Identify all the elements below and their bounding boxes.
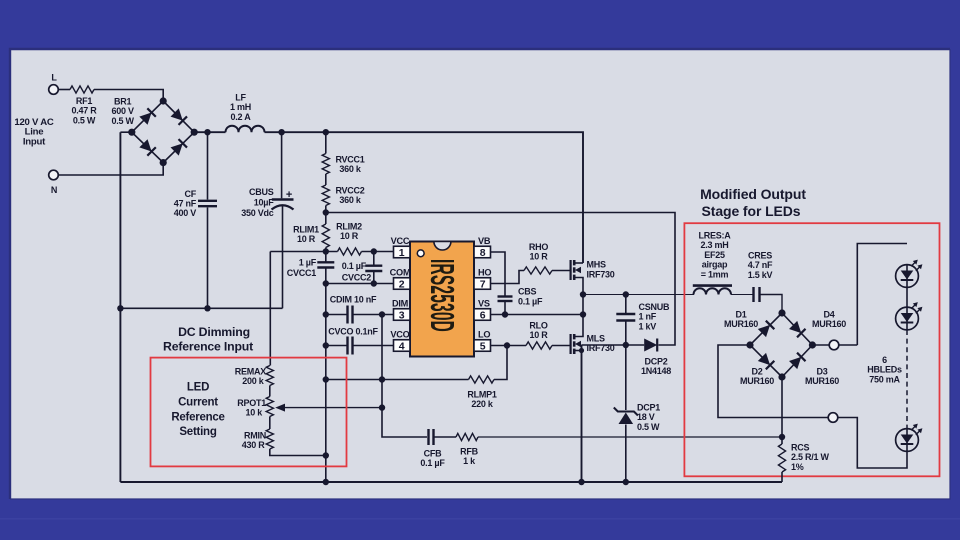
svg-text:10 R: 10 R [297,234,316,244]
svg-text:Modified Output: Modified Output [700,186,806,202]
red box modified output stage [684,223,939,476]
svg-text:47 nF: 47 nF [174,199,197,209]
wire VS line [491,314,584,316]
wire LED1-LED2 [906,287,908,307]
node ground rail x325 [323,479,329,485]
resistor RLO [526,321,552,350]
node CSNUB bottom [623,342,629,348]
svg-text:D1: D1 [735,310,746,320]
bridge BR1 frame [111,97,194,163]
wire VCC to REMAX [269,252,271,366]
diode BR1 upper-left [139,108,156,125]
node VS-CBS [502,311,508,317]
node CBUS top [278,129,284,135]
pin 7 HO [474,267,491,290]
svg-text:400 V: 400 V [174,208,197,218]
wire mid-left horizontal [120,307,282,309]
wire RLMP1 to LO line [494,346,507,380]
diode BR1 lower-left [139,139,156,156]
svg-text:Setting: Setting [179,426,216,438]
node CSNUB top [623,291,629,297]
node D bridge right [809,341,816,348]
resistor RFB [456,433,479,466]
svg-text:Current: Current [178,396,218,408]
wire RHO to MHS gate [552,270,570,272]
svg-text:CFB: CFB [424,449,442,459]
capacitor CBUS [241,187,293,218]
svg-text:Stage for LEDs: Stage for LEDs [702,203,801,219]
wire DCP1 top [625,345,627,410]
svg-text:DCP2: DCP2 [644,357,667,367]
LED 2 [896,302,923,330]
wire dashed LED string [906,330,908,429]
node ground MLS [578,479,584,485]
svg-text:RMIN: RMIN [244,430,266,440]
zener DCP1 [614,403,660,432]
diode DCP2 [641,339,671,377]
wire CF top [207,132,209,199]
capacitor CBS [498,287,543,307]
wire RLO to MLS gate [552,345,570,347]
wire RLIM1 to VCC node [325,248,327,252]
svg-text:0.2 A: 0.2 A [231,112,252,122]
wire DIM vertical [382,315,427,438]
wire CBUS bottom [282,206,284,308]
wire top rail right of LF [265,132,584,263]
pin 5 LO [474,329,491,352]
wire terminal2 to LED string [838,418,907,469]
wire LO to RLO [491,345,527,347]
svg-text:airgap: airgap [702,260,728,270]
wire VCC-rail down1 [325,284,327,315]
svg-text:MUR160: MUR160 [812,319,846,329]
terminal LED+ [829,340,839,350]
svg-text:EF25: EF25 [704,250,725,260]
label 6 HBLEDs 750 mA [867,355,902,384]
svg-text:0.1 µF: 0.1 µF [420,458,445,468]
node RLMP-DIM cross [379,376,385,382]
wire CFB to RFB [435,436,457,438]
svg-text:RVCC2: RVCC2 [335,186,364,196]
svg-text:RCS: RCS [791,443,809,453]
svg-text:4: 4 [399,340,405,352]
svg-text:L: L [51,73,57,83]
label Modified Output Stage for LEDs [700,186,806,219]
node top rail RVCC [323,129,329,135]
wire VCC node left branch [270,251,337,253]
wire left ground rail [119,132,121,482]
wire bridge left to ground rail [120,131,131,133]
svg-text:CRES: CRES [748,251,772,261]
svg-text:750 mA: 750 mA [869,374,900,384]
wire DCP1 bottom [625,425,627,483]
svg-text:2.3 mH: 2.3 mH [700,240,728,250]
wire RVCC1-RVCC2 [325,174,327,185]
node bridge bottom [160,159,167,166]
wire VB to CBS [491,252,506,296]
node wiper-DIM [379,404,385,410]
bridge D1-D4 frame [750,313,812,377]
pin 8 VB [474,236,491,259]
svg-text:N: N [51,185,57,195]
svg-text:MHS: MHS [587,260,606,270]
node D bridge bottom [778,373,785,380]
svg-text:D3: D3 [816,367,827,377]
svg-text:RF1: RF1 [76,96,92,106]
svg-text:VB: VB [478,236,491,246]
svg-text:10 k: 10 k [245,408,263,418]
svg-text:6: 6 [480,309,486,321]
capacitor CVCO [326,327,394,355]
wire CBUS top [281,132,283,198]
terminal L [49,73,59,95]
diode D4 [789,310,846,338]
svg-text:HBLEDs: HBLEDs [867,365,902,375]
resistor RLIM2 [336,222,362,256]
svg-text:CF: CF [185,189,197,199]
node ground DCP1 [623,479,629,485]
svg-text:10 R: 10 R [529,330,548,340]
capacitor CF [174,189,217,218]
wire VCC-rail down4 [325,380,327,483]
node COM left [323,280,329,286]
svg-text:IRF730: IRF730 [587,270,615,280]
label 120V AC Line Input [14,117,54,147]
svg-text:10 R: 10 R [340,231,359,241]
wire CBS to VS [504,302,506,315]
wire REMAX-RPOT1 [269,386,271,397]
node RLMP line left [323,376,329,382]
svg-text:HO: HO [478,267,491,277]
svg-text:8: 8 [480,247,486,259]
svg-text:RVCC1: RVCC1 [335,155,364,165]
svg-text:6: 6 [882,355,887,365]
node divider bottom [323,452,329,458]
resistor REMAX [235,366,274,387]
wire COM line [326,283,394,285]
svg-text:LF: LF [235,93,246,103]
pin 3 DIM [392,298,410,321]
svg-text:RLIM2: RLIM2 [336,222,362,232]
svg-text:= 1mm: = 1mm [701,269,729,279]
svg-text:1 kV: 1 kV [639,321,657,331]
svg-text:RLIM1: RLIM1 [293,225,319,235]
wire L to RF1 [58,89,70,91]
transistor Q1 MHS [571,260,615,295]
svg-text:Reference Input: Reference Input [163,340,253,354]
svg-text:1 k: 1 k [463,456,476,466]
node VCC [323,248,329,254]
wire VCC-rail down3 [325,346,327,380]
svg-text:18 V: 18 V [637,412,655,422]
node VCC charge line [323,209,329,215]
capacitor CVCC2 [342,252,383,284]
wire CRES to D bridge [760,295,782,314]
resistor RCS [778,443,829,473]
wire charge-pump line to DCP2 [326,213,675,346]
svg-text:1 nF: 1 nF [639,312,657,322]
wire D bridge right to terminal [812,344,829,346]
capacitor CSNUB [616,295,670,346]
node COM right [371,280,377,286]
node LO-RLMP [504,342,510,348]
svg-text:RLO: RLO [529,321,547,331]
capacitor CDIM [326,294,394,323]
diode BR1 lower-right [170,139,187,156]
resistor RF1 [70,86,97,126]
node RLIM2 right [371,248,377,254]
node half-bridge mid1 [580,291,586,297]
label DC Dimming Reference Input [163,325,253,354]
LED 1 [896,260,923,288]
pin 6 VS [474,298,491,321]
resistor RVCC1 [322,154,365,175]
svg-text:350 Vdc: 350 Vdc [241,208,274,218]
wire RFB to RCS [478,436,782,438]
svg-text:200 k: 200 k [242,376,265,386]
svg-text:RPOT1: RPOT1 [237,398,266,408]
node bridge right [191,129,198,136]
resistor RVCC2 [322,185,365,206]
svg-text:7: 7 [480,278,486,290]
wire terminal to LED string [839,244,907,346]
node D bridge top [778,309,785,316]
svg-text:REMAX: REMAX [235,367,266,377]
wire RLIM2 to pin1 [362,251,394,253]
svg-text:LO: LO [478,329,490,339]
svg-text:CVCC2: CVCC2 [342,273,372,283]
node CF bottom [204,305,210,311]
wire D bridge bottom to RCS [781,377,783,444]
node bridge left [128,129,135,136]
wire N to bridge bottom [58,163,163,175]
resistor RHO [524,242,552,274]
wire MLS source to DCP2 [582,344,645,346]
transistor Q2 MLS [571,334,615,355]
capacitor CRES [748,251,773,303]
svg-text:4.7 nF: 4.7 nF [748,260,773,270]
svg-text:1%: 1% [791,462,804,472]
wire top rail left of LF [194,131,225,133]
wire RPOT1-RMIN [269,417,271,430]
diode D1 [724,310,774,338]
svg-text:0.5 W: 0.5 W [111,116,134,126]
svg-text:RFB: RFB [460,447,478,457]
svg-text:DC Dimming: DC Dimming [178,325,250,339]
resistor RMIN [242,429,274,450]
wire RF1 to bridge top [94,90,163,102]
svg-text:CDIM 10 nF: CDIM 10 nF [330,294,377,304]
capacitor CVCC1 [287,252,335,284]
node MLS source [579,348,584,353]
svg-text:2: 2 [399,278,405,290]
diode D3 [789,353,839,387]
node CDIM left [323,311,329,317]
node RCS top [779,434,785,440]
svg-text:0.47 R: 0.47 R [71,106,97,116]
svg-text:5: 5 [480,340,486,352]
svg-text:+: + [286,189,292,201]
LED 3 [896,424,923,452]
wire HO to RHO [491,271,525,284]
svg-text:1 mH: 1 mH [230,102,251,112]
pin 1 VCC [391,236,410,259]
inductor LRES [693,231,732,295]
wire RMIN to ground line [270,449,326,456]
svg-text:1 µF: 1 µF [299,258,317,268]
svg-text:MUR160: MUR160 [740,376,774,386]
svg-text:VCO: VCO [390,329,409,339]
svg-text:LRES:A: LRES:A [699,231,732,241]
wire MLS source down [581,345,583,482]
svg-text:360 k: 360 k [339,195,362,205]
svg-text:MUR160: MUR160 [724,319,758,329]
node DIM line [379,311,385,317]
capacitor CFB [420,429,445,468]
svg-text:RLMP1: RLMP1 [467,390,496,400]
svg-text:360 k: 360 k [339,164,362,174]
wire RVCC2 to node [325,206,327,225]
svg-text:CSNUB: CSNUB [639,302,671,312]
svg-text:0.5 W: 0.5 W [73,115,96,125]
node left rail mid [117,305,123,311]
svg-text:10µF: 10µF [254,197,274,207]
wire CF bottom [207,208,209,309]
svg-text:IRS2530D: IRS2530D [423,259,461,332]
wire VCC-rail down2 [325,315,327,346]
svg-text:DCP1: DCP1 [637,403,660,413]
svg-text:D2: D2 [751,367,762,377]
inductor LF [226,93,265,133]
svg-text:CBS: CBS [518,287,536,297]
diode D2 [740,353,774,387]
op-amp U1 IRS2530D body [410,242,474,357]
svg-text:LED: LED [187,382,209,394]
terminal LED- [828,413,838,423]
wire RCS to ground [781,472,783,482]
wire RLMP1 left segment [326,379,469,381]
svg-text:0.1 µF: 0.1 µF [518,297,543,307]
svg-text:Reference: Reference [171,411,224,423]
svg-text:VCC: VCC [391,236,410,246]
svg-text:1N4148: 1N4148 [641,366,671,376]
svg-text:CBUS: CBUS [249,187,274,197]
svg-text:COM: COM [390,267,411,277]
label LED Current Reference Setting [171,382,224,439]
svg-text:1.5 kV: 1.5 kV [748,270,773,280]
svg-text:RHO: RHO [529,242,548,252]
wire bottom ground rail [120,481,782,483]
wire D bridge left loop [718,345,828,418]
potentiometer RPOT1 [237,397,273,418]
wire mid rail [575,295,583,337]
pin 2 COM [390,267,411,290]
svg-text:0.1 µF: 0.1 µF [342,261,367,271]
svg-text:CVCO 0.1nF: CVCO 0.1nF [328,327,378,337]
wire mid node to LRES [583,294,694,296]
svg-text:430 R: 430 R [242,440,266,450]
svg-text:BR1: BR1 [114,97,131,107]
svg-text:600 V: 600 V [111,106,134,116]
resistor RLIM1 [293,224,329,248]
svg-text:Input: Input [23,136,46,147]
svg-text:10 R: 10 R [529,252,548,262]
wire RVCC top [325,132,327,153]
resistor RLMP1 [467,376,496,409]
node CVCO left [323,342,329,348]
svg-text:220 k: 220 k [471,399,494,409]
node D bridge left [746,341,753,348]
node bridge top [160,97,167,104]
svg-text:0.5 W: 0.5 W [637,422,660,432]
svg-text:MUR160: MUR160 [805,376,839,386]
svg-text:D4: D4 [823,310,834,320]
svg-text:CVCC1: CVCC1 [287,268,317,278]
wire RPOT1 wiper arrow [275,404,382,412]
terminal N [49,170,59,195]
svg-text:1: 1 [399,247,405,259]
wire LRES to CRES [731,294,753,296]
svg-text:MLS: MLS [587,334,605,344]
red box DC dimming [151,358,347,467]
svg-text:DIM: DIM [392,298,409,308]
svg-text:3: 3 [399,309,405,321]
node half-bridge mid2 [580,311,586,317]
svg-text:VS: VS [478,298,490,308]
svg-text:2.5 R/1 W: 2.5 R/1 W [791,452,830,462]
diode BR1 upper-right [170,108,187,125]
pin 4 VCO [390,329,410,352]
node CF top [204,129,210,135]
